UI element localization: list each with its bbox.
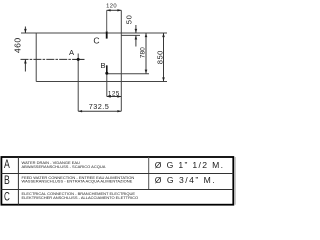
svg-text:Ø G 1” 1/2 M.: Ø G 1” 1/2 M.	[155, 160, 225, 170]
dimension 50 line with outside arrows	[135, 25, 138, 47]
svg-text:ABWASSERANSCHLUSS - SCARICO AC: ABWASSERANSCHLUSS - SCARICO ACQUA	[22, 164, 106, 169]
legend table outer border	[1, 157, 233, 205]
svg-text:460: 460	[13, 37, 23, 53]
svg-text:780: 780	[139, 47, 146, 58]
legend table row divider A/B	[1, 173, 233, 175]
dimension 120 line with arrows	[107, 9, 122, 11]
leader centerline from dimension to point A	[21, 58, 73, 60]
svg-text:B: B	[100, 61, 105, 70]
dimension 850 line with arrows	[162, 33, 165, 82]
svg-text:125: 125	[108, 90, 120, 97]
svg-text:ELEKTRISCHER ANSCHLUSS - ALLAC: ELEKTRISCHER ANSCHLUSS - ALLACCIAMENTO E…	[22, 195, 139, 200]
svg-text:Ø G 3/4” M.: Ø G 3/4” M.	[155, 175, 216, 185]
extension line from 120 dimension down to point C	[106, 10, 108, 31]
svg-text:A: A	[4, 157, 10, 171]
machine outline right edge with extensions up and down	[120, 10, 122, 111]
dimension 732.5 line with arrows	[78, 110, 121, 112]
upper ledge reference line for 50	[121, 34, 140, 36]
svg-text:B: B	[4, 173, 10, 187]
dimension 780 line with arrows	[145, 33, 148, 74]
machine outline left edge	[35, 33, 37, 82]
point B marker thick tick	[106, 66, 108, 74]
point A vertical line down to dimension 732.5	[77, 54, 79, 112]
legend table value column divider	[148, 157, 150, 190]
svg-text:C: C	[93, 36, 99, 46]
legend table row divider B/C	[1, 189, 233, 191]
machine outline bottom edge with right extension	[36, 81, 167, 83]
svg-text:C: C	[4, 189, 10, 203]
svg-text:850: 850	[155, 50, 164, 64]
svg-text:WASSERANSCHLUSS - ENTRATA ACQU: WASSERANSCHLUSS - ENTRATA ACQUA ALIMENTA…	[22, 179, 133, 184]
point A cross horizontal arm	[73, 58, 85, 60]
gray margin right of table	[234, 157, 236, 205]
machine outline top edge with extensions	[21, 32, 167, 34]
svg-text:50: 50	[125, 15, 134, 25]
point B vertical line down to dimension 125	[106, 65, 108, 96]
svg-text:732.5: 732.5	[89, 102, 110, 111]
point C marker tick	[106, 31, 108, 38]
point B extension line to right	[107, 73, 149, 75]
svg-text:120: 120	[106, 4, 117, 10]
legend table letter column divider	[17, 157, 19, 205]
point B dot	[105, 72, 108, 75]
point A dot	[77, 58, 80, 61]
dimension 460 line with outside arrows	[24, 27, 27, 72]
dimension 125 line with arrows	[107, 95, 122, 97]
